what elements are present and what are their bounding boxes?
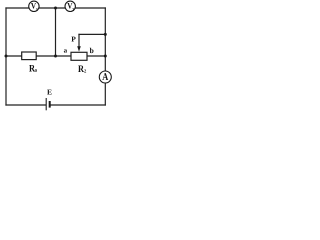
node junction wiper-right <box>104 33 107 36</box>
wiper arrowhead P <box>77 46 81 51</box>
resistor R0 box <box>22 52 37 60</box>
battery E plate long <box>45 98 47 110</box>
wire wiper horizontal <box>79 33 105 35</box>
wire top <box>6 7 105 9</box>
voltmeter V2 <box>65 1 75 13</box>
wire left <box>5 8 7 105</box>
wire right <box>104 8 106 105</box>
svg-text:b: b <box>90 46 94 55</box>
wire middle horizontal <box>6 55 105 57</box>
wire bottom left (to battery) <box>6 104 46 106</box>
wire wiper vertical <box>78 34 80 47</box>
svg-text:1: 1 <box>36 7 38 12</box>
node junction middle-right <box>104 55 107 58</box>
wire middle vertical <box>55 8 57 56</box>
svg-text:P: P <box>71 35 76 44</box>
node junction top <box>54 7 57 10</box>
voltmeter V1 <box>29 1 39 13</box>
resistor R0 label <box>29 64 38 75</box>
node junction middle-center <box>54 55 57 58</box>
node junction middle-left <box>5 55 8 58</box>
rheostat R2 box <box>71 52 87 60</box>
rheostat R2 label <box>78 64 87 75</box>
svg-text:2: 2 <box>72 7 74 12</box>
svg-text:a: a <box>64 47 68 55</box>
svg-text:E: E <box>47 87 52 96</box>
battery E plate short <box>49 101 51 108</box>
wire bottom right (from battery) <box>50 104 105 106</box>
svg-text:A: A <box>102 72 108 83</box>
ammeter A <box>99 71 111 83</box>
